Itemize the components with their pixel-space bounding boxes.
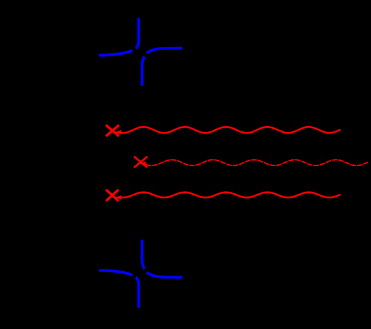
upper-left hyperbola branch: horizontal limb to left <box>99 50 132 55</box>
lower-right hyperbola branch: vertical limb to bottom <box>142 57 144 86</box>
lower-left hyperbola branch: horizontal limb from left <box>99 270 132 275</box>
arrowhead A2 <box>140 162 146 167</box>
arrowhead A1 <box>115 130 121 135</box>
avoided-crossing figure (top) <box>99 18 182 86</box>
lower-left hyperbola branch: vertical limb to bottom <box>136 277 139 308</box>
avoided-crossing figure (bottom, vertical mirror of top) <box>99 240 182 308</box>
wavy line 2 (middle red, thin broken) <box>146 160 368 166</box>
cross X3 <box>106 190 119 201</box>
wavy line 1 (top red) <box>120 127 341 133</box>
arrowhead A3 <box>115 195 121 200</box>
wavy line 3 (bottom red) <box>120 192 341 197</box>
lower-right hyperbola branch: horizontal limb to right <box>147 48 183 53</box>
cross X2 <box>134 157 147 168</box>
upper-left hyperbola branch: vertical limb from top <box>136 18 139 49</box>
upper-right hyperbola branch: vertical limb from top <box>142 240 144 269</box>
cross X1 <box>106 125 119 136</box>
upper-right hyperbola branch: horizontal limb to right <box>147 272 183 277</box>
